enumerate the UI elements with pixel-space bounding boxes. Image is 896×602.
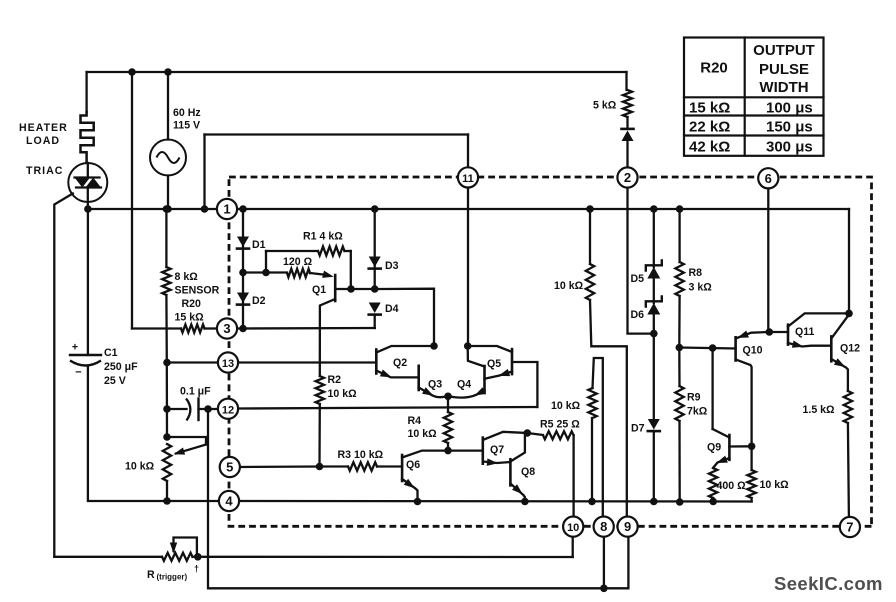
label D5 bbox=[631, 273, 645, 285]
watermark SeekIC.com bbox=[774, 573, 883, 594]
label D1 bbox=[252, 239, 266, 251]
junction D3D4 mid bbox=[371, 285, 379, 293]
svg-text:D4: D4 bbox=[385, 303, 399, 315]
resistor R8 3k bbox=[675, 209, 683, 348]
svg-text:−: − bbox=[75, 367, 81, 379]
resistor 1.5k bbox=[844, 391, 852, 517]
label 60 Hz 115 V bbox=[173, 107, 201, 132]
svg-text:5: 5 bbox=[226, 460, 233, 475]
svg-text:10 kΩ: 10 kΩ bbox=[328, 388, 358, 400]
wire D5 column bbox=[653, 209, 655, 267]
zener D5 bbox=[646, 261, 662, 279]
resistor R3 10k bbox=[320, 462, 403, 470]
svg-text:15 kΩ: 15 kΩ bbox=[689, 100, 730, 117]
junction node11 Q4Q5 bbox=[464, 342, 472, 350]
resistor R5 25ohm bbox=[527, 431, 573, 517]
label D6 bbox=[631, 309, 645, 321]
wire heater drop bbox=[85, 72, 87, 112]
diode D7 bbox=[648, 419, 660, 431]
svg-text:D7: D7 bbox=[631, 423, 645, 435]
wire 132 drop bbox=[132, 72, 181, 329]
svg-text:D1: D1 bbox=[252, 239, 266, 251]
junction Q9 collector riser bbox=[709, 344, 717, 352]
label 10k-c bbox=[760, 479, 790, 491]
wire Q9 collector riser bbox=[711, 348, 713, 429]
svg-text:D2: D2 bbox=[252, 295, 266, 307]
svg-text:D5: D5 bbox=[631, 273, 645, 285]
junction R1 left bbox=[262, 269, 270, 277]
svg-text:R9: R9 bbox=[687, 392, 701, 404]
node 8 bbox=[594, 517, 614, 537]
junction R5 node bbox=[524, 429, 532, 437]
svg-text:5 kΩ: 5 kΩ bbox=[593, 100, 617, 112]
resistor 10k-c bbox=[747, 446, 755, 501]
node 9 bbox=[618, 517, 638, 537]
dashed IC boundary box bbox=[229, 177, 872, 526]
transistor Q5 bbox=[468, 346, 538, 407]
resistor 120ohm bbox=[287, 269, 323, 277]
svg-text:22 kΩ: 22 kΩ bbox=[689, 119, 730, 136]
node 1 bbox=[217, 199, 237, 219]
junction 400 bottom bbox=[709, 498, 717, 506]
resistor R20 15k bbox=[181, 325, 217, 333]
junction Q1 base/R1 bbox=[347, 285, 355, 293]
transistor Q10 bbox=[736, 331, 770, 447]
label 10k-b bbox=[551, 400, 581, 412]
svg-text:R3 10 kΩ: R3 10 kΩ bbox=[338, 449, 384, 461]
node 13 bbox=[218, 352, 238, 372]
svg-text:SeekIC.com: SeekIC.com bbox=[774, 573, 883, 594]
svg-text:7kΩ: 7kΩ bbox=[687, 406, 708, 418]
junction D7 bottom bbox=[650, 498, 658, 506]
junction R4 bottom bbox=[444, 447, 452, 455]
transistor Q2 bbox=[376, 346, 434, 377]
junction 0.1uF node12 bbox=[204, 405, 212, 413]
svg-text:†: † bbox=[194, 564, 199, 574]
capacitor C1 bbox=[70, 342, 101, 379]
transistor Q4 bbox=[448, 346, 486, 398]
svg-text:R5 25 Ω: R5 25 Ω bbox=[540, 419, 580, 431]
svg-text:100 μs: 100 μs bbox=[766, 100, 813, 117]
svg-text:2: 2 bbox=[624, 170, 631, 185]
wire node10 riser bbox=[572, 537, 574, 558]
junction Q8 emitter bbox=[521, 498, 529, 506]
svg-text:Q2: Q2 bbox=[393, 357, 407, 369]
svg-text:TRIAC: TRIAC bbox=[26, 165, 63, 177]
svg-text:250 μF: 250 μF bbox=[104, 361, 138, 373]
junction R trigger bbox=[194, 553, 202, 561]
svg-text:300 μs: 300 μs bbox=[766, 139, 813, 156]
svg-text:10 kΩ: 10 kΩ bbox=[551, 400, 581, 412]
svg-text:115 V: 115 V bbox=[173, 120, 200, 132]
svg-text:(trigger): (trigger) bbox=[157, 573, 188, 582]
wire node11 drop bbox=[467, 187, 469, 346]
diode D2 bbox=[237, 293, 249, 305]
node 4 bbox=[219, 491, 239, 511]
junction sensor top bbox=[163, 205, 171, 213]
label Q5 bbox=[487, 358, 501, 370]
svg-text:Q10: Q10 bbox=[743, 345, 763, 357]
resistor R9 7k bbox=[675, 348, 683, 503]
resistor 8k sensor bbox=[162, 267, 170, 295]
label D3 bbox=[385, 260, 399, 272]
resistor 10k-a bbox=[586, 209, 627, 517]
wire Q10 base feed bbox=[679, 348, 735, 349]
label R3 bbox=[338, 449, 384, 461]
svg-text:8: 8 bbox=[600, 519, 607, 534]
arrow Q1 emitter bbox=[322, 271, 334, 278]
label 10k-a bbox=[554, 280, 584, 292]
svg-text:10 kΩ: 10 kΩ bbox=[760, 479, 790, 491]
table R20 / output pulse width bbox=[684, 38, 824, 156]
svg-text:Q12: Q12 bbox=[840, 343, 860, 355]
resistor 5k bbox=[623, 90, 632, 117]
wire 120ohm feed bbox=[243, 271, 287, 273]
label Q11 bbox=[795, 326, 815, 338]
svg-text:WIDTH: WIDTH bbox=[759, 79, 808, 96]
wire 5k top bbox=[625, 72, 627, 90]
wire node2 drop bbox=[628, 187, 654, 334]
label 0.1uF bbox=[180, 386, 211, 398]
wire rail right drop bbox=[848, 209, 850, 313]
junction 10k-b bottom bbox=[588, 498, 596, 506]
svg-text:15 kΩ: 15 kΩ bbox=[175, 312, 205, 324]
svg-text:10 kΩ: 10 kΩ bbox=[125, 461, 155, 473]
node 6 bbox=[758, 168, 778, 188]
svg-text:10 kΩ: 10 kΩ bbox=[554, 280, 584, 292]
label Q10 bbox=[743, 345, 763, 357]
junction node2 tie bbox=[650, 330, 658, 338]
junction cap tap bbox=[163, 405, 171, 413]
label Q8 bbox=[521, 466, 535, 478]
junction D3 top bbox=[371, 205, 379, 213]
wire node8 bottom riser bbox=[603, 537, 605, 589]
wire D6 to D7 bbox=[653, 314, 655, 420]
junction D2 bottom bbox=[239, 325, 247, 333]
wire top rail bbox=[87, 71, 627, 73]
transistor Q3 bbox=[419, 366, 448, 397]
label R8 bbox=[689, 267, 713, 294]
svg-text:R4: R4 bbox=[408, 415, 422, 427]
svg-text:Q3: Q3 bbox=[428, 379, 442, 391]
svg-text:1.5 kΩ: 1.5 kΩ bbox=[803, 404, 836, 416]
label 400ohm bbox=[717, 480, 747, 492]
junction D5 top bbox=[650, 205, 658, 213]
heater load element bbox=[81, 112, 94, 163]
transistor Q7 bbox=[483, 432, 528, 466]
svg-text:+: + bbox=[72, 342, 78, 354]
wire triac gate bbox=[54, 194, 73, 557]
label 1.5k bbox=[803, 404, 836, 416]
junction 10k-a top bbox=[586, 205, 594, 213]
label D2 bbox=[252, 295, 266, 307]
svg-text:8 kΩ: 8 kΩ bbox=[175, 271, 199, 283]
junction Q10 emitter node6 bbox=[766, 328, 774, 336]
svg-text:7: 7 bbox=[846, 520, 853, 535]
svg-text:42 kΩ: 42 kΩ bbox=[689, 139, 730, 156]
svg-text:Q6: Q6 bbox=[406, 459, 420, 471]
node 11 bbox=[458, 167, 478, 187]
svg-text:3: 3 bbox=[223, 321, 230, 336]
junction Q9 base bbox=[748, 443, 756, 451]
diode D1 bbox=[237, 237, 249, 249]
svg-text:6: 6 bbox=[765, 171, 772, 186]
junction D1D2 mid bbox=[239, 269, 247, 277]
junction Q2 collector bbox=[430, 342, 438, 350]
potentiometer 10k bbox=[163, 437, 206, 501]
junction R8R9 bbox=[676, 344, 684, 352]
wire D3 column bbox=[374, 209, 376, 289]
wire node6 drop bbox=[768, 188, 769, 332]
wire node5 to R3 bbox=[240, 465, 320, 468]
svg-text:SENSOR: SENSOR bbox=[175, 285, 220, 297]
wire D7 bottom bbox=[653, 431, 655, 502]
junction AC bottom bbox=[164, 205, 172, 213]
svg-text:D6: D6 bbox=[631, 309, 645, 321]
svg-text:3 kΩ: 3 kΩ bbox=[689, 282, 713, 294]
wire sensor column top bbox=[165, 209, 167, 267]
label Q9 bbox=[707, 442, 721, 454]
label C1 bbox=[104, 347, 138, 387]
label Q7 bbox=[490, 444, 504, 456]
svg-text:Q4: Q4 bbox=[457, 379, 471, 391]
wire 208 drop bbox=[208, 409, 628, 588]
label R1 4k bbox=[303, 231, 343, 243]
svg-text:LOAD: LOAD bbox=[26, 135, 60, 147]
svg-text:25 V: 25 V bbox=[104, 375, 126, 387]
svg-text:13: 13 bbox=[222, 358, 234, 370]
node 12 bbox=[218, 399, 238, 419]
node 3 bbox=[217, 318, 237, 338]
wire rail y209 bbox=[88, 208, 849, 210]
svg-text:R8: R8 bbox=[689, 267, 703, 279]
svg-text:R2: R2 bbox=[328, 374, 342, 386]
svg-text:PULSE: PULSE bbox=[759, 61, 809, 78]
junction pot top bbox=[163, 433, 171, 441]
label HEATER LOAD bbox=[19, 122, 68, 147]
resistor R4 10k bbox=[444, 396, 452, 450]
svg-text:Q5: Q5 bbox=[487, 358, 501, 370]
svg-text:C1: C1 bbox=[104, 347, 118, 359]
junction node13 tap bbox=[163, 359, 171, 367]
label R9 bbox=[687, 392, 708, 418]
junction node1 riser bbox=[201, 205, 209, 213]
svg-text:9: 9 bbox=[624, 519, 631, 534]
resistor 400ohm bbox=[709, 468, 717, 502]
wire rail y501 bbox=[219, 500, 751, 503]
wire node12 to Q5 base drop bbox=[238, 407, 538, 409]
transistor Q6 bbox=[402, 451, 483, 502]
junction right of node 1 bbox=[239, 205, 247, 213]
transistor Q12 bbox=[831, 315, 849, 392]
wire trigger rail bbox=[54, 556, 162, 558]
junction top rail / 132 drop bbox=[128, 68, 136, 76]
svg-text:11: 11 bbox=[462, 173, 474, 185]
wire D1D2 column bbox=[242, 209, 244, 329]
diode node2 feed bbox=[622, 129, 634, 141]
svg-text:Q1: Q1 bbox=[312, 284, 326, 296]
capacitor 0.1uF bbox=[167, 399, 218, 421]
svg-text:Q7: Q7 bbox=[490, 444, 504, 456]
junction R8 top bbox=[676, 205, 684, 213]
svg-text:150 μs: 150 μs bbox=[766, 119, 813, 136]
label sensor block bbox=[175, 271, 220, 324]
node 10 bbox=[563, 517, 583, 537]
label 5k bbox=[593, 100, 617, 112]
transistor Q11 bbox=[769, 313, 849, 347]
label D4 bbox=[385, 303, 399, 315]
diode D3 bbox=[369, 257, 381, 269]
label Q2 bbox=[393, 357, 407, 369]
svg-text:0.1 μF: 0.1 μF bbox=[180, 386, 211, 398]
wire C1 column bbox=[88, 209, 219, 501]
svg-text:Q8: Q8 bbox=[521, 466, 535, 478]
resistor 10k-b bbox=[588, 358, 603, 517]
svg-text:10: 10 bbox=[567, 522, 579, 534]
junction node5/Q1col bbox=[316, 463, 324, 471]
label R5 bbox=[540, 419, 580, 431]
zener D6 bbox=[646, 297, 662, 315]
transistor Q1 bbox=[320, 275, 375, 376]
pot bracket R trigger bbox=[170, 538, 197, 557]
svg-text:OUTPUT: OUTPUT bbox=[753, 42, 815, 59]
label R trigger bbox=[147, 564, 199, 582]
svg-text:R1 4 kΩ: R1 4 kΩ bbox=[303, 231, 343, 243]
wire node3 to D4 bbox=[237, 327, 375, 330]
label R2 bbox=[328, 374, 358, 400]
diode D4 bbox=[369, 303, 381, 329]
junction Q3Q4 emitters bbox=[444, 393, 452, 401]
junction triac bottom bbox=[84, 205, 92, 213]
node 2 bbox=[617, 167, 637, 187]
label TRIAC bbox=[26, 165, 63, 177]
junction node8 bottom bbox=[600, 585, 608, 593]
junction Q11Q12 collectors bbox=[845, 310, 853, 318]
wire diode to node2 bbox=[626, 141, 628, 168]
svg-text:Q11: Q11 bbox=[795, 326, 815, 338]
resistor R trigger bbox=[162, 553, 573, 561]
triac bbox=[68, 163, 107, 209]
transistor Q9 bbox=[713, 429, 752, 468]
svg-text:R20: R20 bbox=[700, 60, 728, 77]
AC source 60Hz 115V bbox=[150, 72, 186, 209]
resistor R2 10k bbox=[316, 376, 324, 467]
wire 5k to diode bbox=[626, 117, 628, 129]
svg-text:R: R bbox=[147, 569, 155, 581]
svg-text:4: 4 bbox=[225, 494, 233, 509]
wire D5D6 bbox=[653, 278, 655, 303]
label Q1 bbox=[312, 284, 326, 296]
wire sensor column bbox=[165, 295, 168, 437]
svg-text:10 kΩ: 10 kΩ bbox=[408, 428, 438, 440]
junction R9 bottom bbox=[676, 498, 684, 506]
wire node13 to Q2 base bbox=[167, 361, 376, 363]
svg-text:R20: R20 bbox=[182, 298, 202, 310]
wire node1 riser and node11 feed bbox=[205, 135, 469, 210]
svg-text:400 Ω: 400 Ω bbox=[717, 480, 747, 492]
label D7 bbox=[631, 423, 645, 435]
svg-text:D3: D3 bbox=[385, 260, 399, 272]
transistor Q8 bbox=[510, 433, 525, 502]
label Q4 bbox=[457, 379, 471, 391]
label pot 10k bbox=[125, 461, 155, 473]
label R4 bbox=[408, 415, 438, 440]
label Q12 bbox=[840, 343, 860, 355]
junction Q6 emitter bbox=[414, 498, 422, 506]
node 7 bbox=[840, 517, 860, 537]
svg-text:12: 12 bbox=[222, 404, 234, 416]
junction top rail / AC source bbox=[164, 68, 172, 76]
svg-text:Q9: Q9 bbox=[707, 442, 721, 454]
junction pot bottom bbox=[163, 497, 171, 505]
label Q3 bbox=[428, 379, 442, 391]
svg-text:120 Ω: 120 Ω bbox=[283, 256, 313, 268]
resistor R1 4k bbox=[266, 247, 351, 290]
label Q6 bbox=[406, 459, 420, 471]
svg-text:HEATER: HEATER bbox=[19, 122, 68, 134]
svg-text:60 Hz: 60 Hz bbox=[173, 107, 201, 119]
svg-text:1: 1 bbox=[223, 202, 230, 217]
wire D3D4 to Q2col bbox=[375, 289, 434, 346]
label 120ohm bbox=[283, 256, 313, 268]
node 5 bbox=[220, 457, 240, 477]
